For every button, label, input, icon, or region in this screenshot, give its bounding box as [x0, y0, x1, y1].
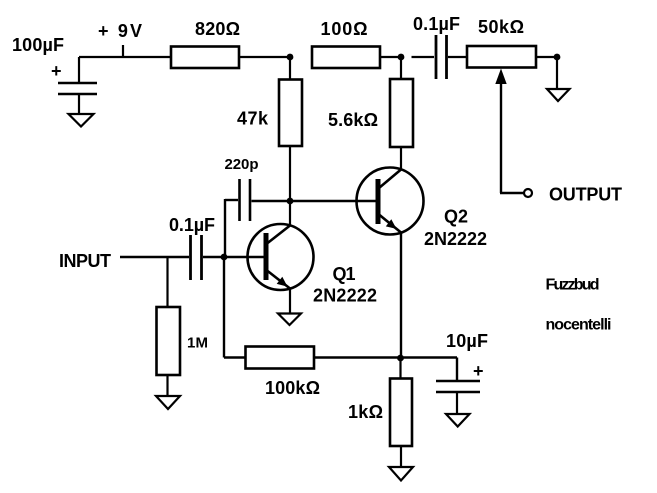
svg-text:100µF: 100µF — [12, 35, 64, 55]
label OUTPUT — [549, 185, 622, 205]
capacitor 0.1µF coupling — [436, 35, 447, 79]
wire node D down to 100kΩ — [224, 257, 246, 358]
wire wiper to output terminal — [500, 192, 524, 194]
resistor 1kΩ — [390, 379, 412, 447]
resistor 820Ω — [171, 47, 239, 69]
svg-text:OUTPUT: OUTPUT — [549, 185, 622, 205]
svg-text:0.1µF: 0.1µF — [413, 14, 460, 34]
wire Q2 emitter down to node E — [400, 233, 402, 359]
svg-text:100kΩ: 100kΩ — [265, 378, 320, 398]
label 1M — [187, 335, 208, 352]
ground under Q1 — [278, 314, 301, 326]
resistor 47k — [279, 80, 302, 147]
ground under 1kΩ — [389, 467, 413, 481]
transistor Q2 — [357, 168, 424, 235]
wire node E to 10µF — [401, 358, 458, 381]
label Q2 — [444, 207, 468, 227]
capacitor 100µF lead from rail — [78, 57, 80, 82]
potentiometer 50kΩ — [467, 46, 536, 68]
wire 220p right plate to node C — [252, 200, 291, 202]
wire 220p left plate down to input node — [225, 199, 238, 257]
wire input cap to node D — [203, 256, 224, 258]
wire node A to 47k — [289, 57, 291, 80]
wire top rail left segment — [79, 56, 171, 58]
label 50kΩ — [478, 17, 524, 37]
svg-text:INPUT: INPUT — [59, 251, 111, 271]
svg-text:+: + — [51, 61, 62, 81]
ground under 1M — [156, 396, 180, 409]
wire node B to 5.6kΩ — [400, 57, 402, 80]
node D junction dot — [221, 254, 228, 261]
node C junction dot — [287, 198, 294, 205]
svg-text:+: + — [473, 361, 484, 381]
svg-text:2N2222: 2N2222 — [313, 286, 377, 306]
wire node C to Q2 base — [290, 200, 376, 202]
resistor 5.6kΩ — [390, 79, 413, 147]
svg-text:+ 9V: + 9V — [98, 21, 142, 41]
ground under 100µF — [69, 114, 94, 127]
svg-text:2N2222: 2N2222 — [424, 229, 487, 249]
svg-text:Fuzzbud: Fuzzbud — [546, 277, 600, 294]
wire node B to capacitor 0.1µF — [412, 56, 435, 58]
wire 5.6kΩ to Q2 collector — [400, 147, 402, 170]
wire input lead — [120, 256, 189, 258]
label + 9V — [98, 21, 142, 41]
label 100µF — [12, 35, 64, 55]
label 2N2222 of Q2 — [424, 229, 487, 249]
capacitor 220p — [240, 179, 251, 221]
label 220p — [225, 156, 259, 173]
wiper arrow of 50kΩ pot — [495, 69, 506, 194]
capacitor 10µF — [436, 381, 480, 392]
label 1kΩ — [348, 402, 383, 422]
label nocentelli — [546, 317, 612, 334]
wire pot right end to ground — [536, 57, 557, 89]
label 0.1µF — [413, 14, 460, 34]
output terminal circle — [524, 189, 532, 197]
svg-text:0.1µF: 0.1µF — [169, 215, 215, 235]
svg-text:220p: 220p — [225, 156, 259, 173]
resistor 100Ω — [312, 47, 380, 69]
svg-text:5.6kΩ: 5.6kΩ — [328, 110, 378, 130]
transistor Q1 — [248, 224, 314, 290]
wire 0.1µF to potentiometer — [448, 56, 467, 58]
wire Q1 emitter to ground — [289, 289, 291, 315]
svg-text:47k: 47k — [237, 109, 269, 129]
wire 10µF to ground — [456, 392, 458, 414]
label + polarity of 10µF — [473, 361, 484, 381]
+9V supply tick — [122, 45, 124, 58]
capacitor 0.1µF input — [191, 235, 202, 280]
ground under 50kΩ — [547, 89, 570, 101]
svg-text:100Ω: 100Ω — [321, 19, 368, 39]
wire 1kΩ to ground — [400, 446, 402, 467]
svg-text:Q2: Q2 — [444, 207, 468, 227]
label 10µF — [446, 331, 488, 351]
ground under 10µF — [446, 414, 470, 427]
resistor 100kΩ — [246, 347, 315, 369]
svg-text:1kΩ: 1kΩ — [348, 402, 383, 422]
label 820Ω — [195, 19, 240, 39]
wire node E to 1kΩ — [399, 358, 401, 379]
label Fuzzbud — [546, 277, 600, 294]
svg-text:10µF: 10µF — [446, 331, 488, 351]
node E junction dot — [397, 355, 404, 362]
label 0.1µF input — [169, 215, 215, 235]
label INPUT — [59, 251, 111, 271]
capacitor 100µF — [58, 83, 97, 94]
node B junction dot — [398, 54, 405, 61]
label 47k — [237, 109, 269, 129]
label 100kΩ — [265, 378, 320, 398]
label 5.6kΩ — [328, 110, 378, 130]
node A junction dot — [287, 54, 294, 61]
svg-text:Q1: Q1 — [333, 264, 356, 284]
wire 100Ω to node B — [380, 56, 401, 58]
svg-text:1M: 1M — [187, 335, 208, 352]
label 100Ω — [321, 19, 368, 39]
wire 1M to ground — [166, 375, 168, 396]
wire 820Ω to node A — [239, 56, 290, 58]
resistor 1M — [157, 307, 181, 375]
wire 100kΩ to node E — [314, 356, 401, 358]
wire node D to Q1 base — [224, 256, 264, 258]
svg-text:50kΩ: 50kΩ — [478, 17, 524, 37]
label 2N2222 of Q1 — [313, 286, 377, 306]
wire input line to 1M — [166, 257, 168, 307]
node pot-right junction dot — [554, 54, 561, 61]
wire 47k to node C and Q1 collector — [289, 146, 291, 226]
label Q1 — [333, 264, 356, 284]
label + polarity of 100µF — [51, 61, 62, 81]
svg-text:nocentelli: nocentelli — [546, 317, 612, 334]
wire 100µF to ground — [78, 94, 80, 114]
svg-text:820Ω: 820Ω — [195, 19, 240, 39]
